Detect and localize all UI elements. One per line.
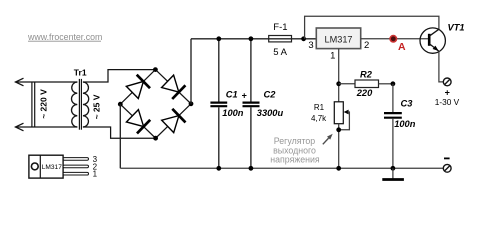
svg-text:+: +: [242, 91, 247, 101]
svg-text:Tr1: Tr1: [74, 68, 87, 78]
capacitor C1: [210, 39, 243, 169]
svg-text:F-1: F-1: [273, 22, 287, 33]
capacitor C2: [242, 39, 284, 169]
terminal plus: [435, 78, 460, 107]
svg-text:4,7k: 4,7k: [311, 114, 327, 123]
mains input arrow top: [16, 78, 24, 86]
ground: [382, 168, 404, 179]
svg-text:3300u: 3300u: [257, 108, 284, 118]
svg-text:напряжения: напряжения: [270, 154, 320, 164]
diode VD lower-right: [162, 109, 186, 133]
wire primary top: [16, 81, 78, 83]
svg-text:C1: C1: [226, 89, 238, 99]
node bridge left: [118, 102, 123, 107]
node bridge bottom: [153, 136, 158, 141]
svg-text:A: A: [398, 41, 406, 53]
svg-text:1: 1: [330, 51, 335, 62]
node C2 bottom: [249, 166, 254, 171]
annotation regulator text: [270, 136, 320, 164]
node R2 right junction: [391, 81, 396, 86]
resistor R2: [339, 70, 393, 98]
wire bridge plus to top rail: [190, 39, 192, 104]
node bridge top: [153, 67, 158, 72]
wire emitter to plus terminal: [439, 51, 443, 82]
wire secondary top to bridge: [83, 70, 155, 82]
transformer core: [79, 79, 81, 130]
mains input arrow bottom: [16, 123, 24, 131]
wire bottom rail: [120, 167, 443, 169]
potentiometer R1: [311, 102, 349, 169]
node A: [390, 36, 406, 53]
capacitor C3: [384, 84, 416, 169]
svg-text:220: 220: [356, 88, 373, 98]
terminal minus: [443, 158, 451, 172]
svg-text:C3: C3: [401, 99, 414, 109]
node C1 top: [216, 36, 221, 41]
svg-text:R1: R1: [314, 103, 325, 112]
svg-text:5 A: 5 A: [273, 47, 287, 58]
wire bypass to collector: [305, 16, 439, 39]
svg-text:C2: C2: [264, 89, 277, 99]
diode VD upper-right: [162, 75, 186, 99]
node R1 wiper junction: [336, 127, 341, 132]
wire top rail: [191, 38, 316, 40]
node R1 bottom rail: [336, 166, 341, 171]
svg-text:R2: R2: [360, 70, 373, 80]
mains plug marker (double bar): [32, 82, 35, 127]
diode VD upper-left: [126, 75, 150, 99]
node fuse right / pin3 junction: [301, 36, 306, 41]
svg-text:VT1: VT1: [448, 22, 465, 32]
node C2 top: [249, 36, 254, 41]
svg-text:1-30 V: 1-30 V: [435, 97, 460, 107]
wire secondary bottom to bridge: [83, 127, 156, 138]
node bridge right: [189, 101, 194, 106]
svg-text:100n: 100n: [222, 108, 244, 118]
fuse F-1: [269, 22, 292, 58]
transformer Tr1 primary winding: [71, 82, 77, 127]
wire pin2 to base: [361, 38, 430, 40]
node C1 bottom: [216, 166, 221, 171]
svg-text:LM317: LM317: [324, 34, 352, 44]
watermark www.frocenter.com: [27, 32, 102, 42]
transformer Tr1 secondary winding: [83, 82, 89, 127]
bridge rectifier frame: [120, 70, 191, 139]
transistor VT1: [420, 22, 465, 53]
svg-text:~ 25 V: ~ 25 V: [91, 94, 101, 119]
op-amp / regulator U1 LM317: [316, 28, 360, 49]
svg-text:www.frocenter.com: www.frocenter.com: [27, 32, 102, 42]
LM317 package drawing: [29, 155, 98, 179]
svg-text:~ 220 V: ~ 220 V: [38, 89, 48, 119]
annotation arrow: [323, 134, 333, 145]
wire pin1 down: [338, 49, 340, 102]
svg-text:1: 1: [93, 170, 98, 179]
wire primary bottom: [16, 126, 78, 128]
svg-text:3: 3: [308, 40, 313, 51]
svg-text:2: 2: [364, 40, 369, 51]
wire bridge minus down: [119, 104, 121, 168]
node ground junction: [391, 166, 396, 171]
svg-text:LM317: LM317: [42, 164, 62, 171]
diode VD lower-left: [126, 110, 150, 134]
node pin1/R2 junction: [336, 81, 341, 86]
svg-text:100n: 100n: [394, 119, 416, 129]
